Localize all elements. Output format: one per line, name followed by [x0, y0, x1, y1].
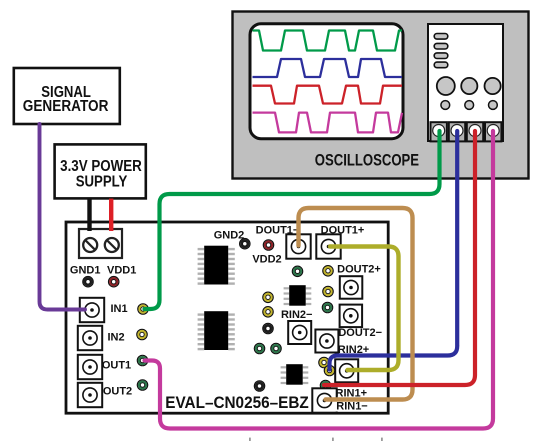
wire purple signal generator to IN1: [40, 124, 86, 310]
connector IN1: [80, 298, 104, 322]
signal generator box: [14, 68, 120, 124]
connector DOUT1-: [286, 234, 310, 258]
svg-text:RIN1−: RIN1−: [336, 401, 368, 413]
svg-text:VDD2: VDD2: [252, 254, 281, 266]
test point OUT2: [137, 380, 147, 390]
scope button 4: [434, 62, 448, 68]
IC U3: [284, 285, 312, 306]
svg-text:GND1: GND1: [70, 265, 101, 277]
test point TP14: [319, 357, 329, 367]
connector RIN2+A: [315, 330, 338, 353]
scope trace CH2 blue: [253, 59, 403, 77]
svg-text:GND2: GND2: [214, 230, 245, 242]
svg-text:RIN2−: RIN2−: [281, 309, 313, 321]
svg-text:DOUT2+: DOUT2+: [337, 263, 381, 275]
IC U1: [198, 246, 235, 285]
svg-text:OSCILLOSCOPE: OSCILLOSCOPE: [315, 152, 419, 170]
scope knob 3: [485, 78, 501, 94]
test point GND1: [83, 277, 93, 287]
scope button 2: [434, 43, 448, 49]
wire blue scope CH2 to RIN2+ test point: [330, 131, 458, 370]
test point IN2: [137, 329, 147, 339]
IC U2: [198, 311, 235, 350]
test point TP8: [322, 302, 332, 312]
connector IN2: [78, 326, 102, 350]
svg-text:OUT1: OUT1: [102, 359, 131, 371]
test point GND2: [240, 239, 250, 249]
3.3V power supply box: [55, 144, 146, 198]
connector OUT2: [78, 383, 102, 407]
svg-text:GENERATOR: GENERATOR: [23, 98, 109, 115]
test point TP17: [254, 381, 264, 391]
scope BNC CH1: [431, 122, 447, 141]
svg-text:EVAL–CN0256–EBZ: EVAL–CN0256–EBZ: [165, 394, 309, 412]
test point VDD1: [109, 277, 119, 287]
scope BNC CH4: [485, 122, 501, 141]
wire magenta scope CH4 to OUT1 test point: [145, 131, 494, 429]
connector OUT1: [78, 355, 102, 379]
scope trace CH3 red: [253, 86, 403, 104]
wire olive DOUT1+ to RIN2+: [330, 247, 399, 371]
scope small knob 1: [441, 101, 450, 110]
test point TP10: [263, 307, 273, 317]
connector RIN2+B: [335, 359, 358, 382]
test point TP11: [263, 323, 273, 333]
scope small knob 2: [465, 101, 474, 110]
test point TP16: [320, 380, 330, 390]
scope knob 1: [437, 77, 455, 95]
svg-text:VDD1: VDD1: [107, 265, 136, 277]
svg-text:IN1: IN1: [110, 303, 127, 315]
wire red power supply to VDD1: [109, 199, 113, 231]
connector DOUT1+: [316, 234, 340, 258]
scope knob 2: [461, 78, 477, 94]
scope button 3: [434, 53, 448, 59]
scope button 1: [434, 34, 448, 40]
svg-text:OUT2: OUT2: [103, 385, 132, 397]
svg-text:3.3V POWER: 3.3V POWER: [60, 158, 142, 175]
connector RIN2-: [288, 321, 311, 344]
oscilloscope screen: [250, 24, 403, 139]
test point TP13: [271, 343, 281, 353]
scope small knob 3: [489, 101, 498, 110]
connector RIN1-: [312, 388, 336, 412]
scope trace CH1 green: [253, 31, 403, 51]
wire green scope CH1 to IN1 test point: [145, 131, 440, 309]
eval board EVAL-CN0256-EBZ outline: [66, 222, 388, 413]
oscilloscope front panel: [428, 24, 503, 141]
wire black power supply to GND1: [87, 199, 91, 231]
scope BNC CH3: [467, 122, 483, 141]
connector DOUT2+: [340, 276, 363, 299]
svg-text:SUPPLY: SUPPLY: [76, 174, 128, 191]
test point TP12: [254, 343, 264, 353]
test point TP9: [263, 292, 273, 302]
test point TP7: [323, 286, 333, 296]
test point TP6: [323, 266, 333, 276]
wire tan DOUT1- to RIN1-: [299, 208, 413, 400]
svg-text:IN2: IN2: [107, 331, 124, 343]
test point IN1: [138, 304, 148, 314]
oscilloscope body: [233, 12, 529, 179]
terminal block J1: [79, 229, 122, 258]
test point TP5: [292, 266, 302, 276]
svg-text:DOUT2−: DOUT2−: [338, 327, 382, 339]
test point OUT1: [137, 355, 147, 365]
connector DOUT2-: [340, 305, 363, 328]
IC U4: [281, 364, 309, 385]
scope BNC CH2: [449, 122, 465, 141]
cropped caption marks at bottom edge: [249, 438, 383, 441]
wire red scope CH3 to RIN1+ test point: [324, 131, 475, 385]
scope trace CH4 magenta: [253, 113, 403, 133]
test point VDD2: [263, 240, 273, 250]
test point TP15: [324, 365, 334, 375]
